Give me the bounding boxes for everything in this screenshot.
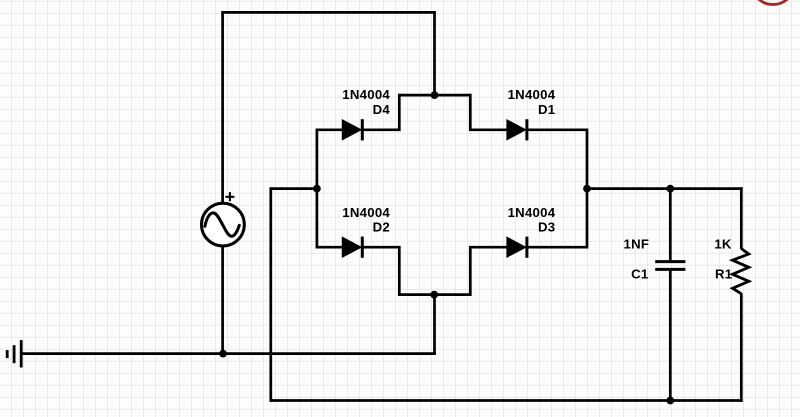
wire D3 cathode lead — [527, 246, 587, 249]
node bridge bottom junction — [430, 291, 438, 299]
svg-text:D1: D1 — [538, 102, 555, 117]
svg-text:C1: C1 — [631, 267, 648, 282]
resistor R1 — [733, 249, 749, 294]
svg-text:1N4004: 1N4004 — [508, 205, 556, 220]
capacitor C1 — [655, 262, 685, 270]
wire R1 top lead — [740, 187, 743, 249]
wire C1 bottom lead — [669, 269, 672, 400]
wire source top lead up — [221, 12, 224, 203]
wire D1 bend down and anode lead — [470, 94, 507, 130]
node bridge left junction — [313, 185, 321, 193]
wire D3 bend up and anode lead — [470, 247, 507, 296]
node bridge top junction — [431, 91, 439, 99]
wire bridge left node to left column — [271, 187, 317, 190]
diode D4 — [342, 119, 362, 140]
svg-text:1K: 1K — [714, 237, 732, 252]
wire left column vertical down — [269, 187, 272, 402]
svg-text:D4: D4 — [373, 102, 391, 117]
wire D2 cathode lead and bend down — [362, 247, 399, 296]
node bridge right junction — [583, 185, 591, 193]
svg-text:1N4004: 1N4004 — [342, 87, 390, 102]
annotation red ellipse (top right, cut off) — [754, 0, 792, 5]
diode D3 — [507, 237, 527, 258]
svg-text:1NF: 1NF — [624, 237, 650, 252]
wire source bottom lead — [221, 246, 224, 354]
wire D1 cathode lead — [527, 128, 587, 131]
wire bridge top horizontal — [399, 94, 470, 97]
svg-text:D3: D3 — [538, 220, 555, 235]
wire D4 cathode lead and bend up — [362, 94, 399, 130]
wire D4 anode lead — [317, 128, 343, 131]
svg-text:D2: D2 — [373, 220, 390, 235]
wire top horizontal — [221, 11, 436, 14]
wire bottom horizontal — [271, 399, 743, 402]
ground symbol — [7, 340, 21, 367]
diode D1 — [507, 119, 527, 140]
wire ground horizontal — [21, 352, 436, 355]
wire bridge left vertical — [316, 128, 319, 248]
wire bridge right node to output — [587, 187, 743, 190]
wire D2 anode lead — [317, 246, 343, 249]
wire down to bridge top node — [433, 12, 436, 95]
node source-ground junction — [219, 350, 227, 358]
node capacitor bottom junction — [666, 397, 674, 405]
svg-text:R1: R1 — [715, 267, 732, 282]
voltage source V1 (AC) — [202, 192, 245, 246]
wire up to bridge bottom node — [433, 295, 436, 354]
diode D2 — [342, 237, 362, 258]
wire R1 bottom lead — [740, 293, 743, 402]
wire bridge bottom horizontal — [399, 293, 470, 296]
svg-text:1N4004: 1N4004 — [508, 87, 556, 102]
svg-text:1N4004: 1N4004 — [342, 205, 390, 220]
node capacitor top junction — [666, 185, 674, 193]
wire C1 top lead — [669, 189, 672, 262]
wire bridge right vertical — [586, 128, 589, 248]
